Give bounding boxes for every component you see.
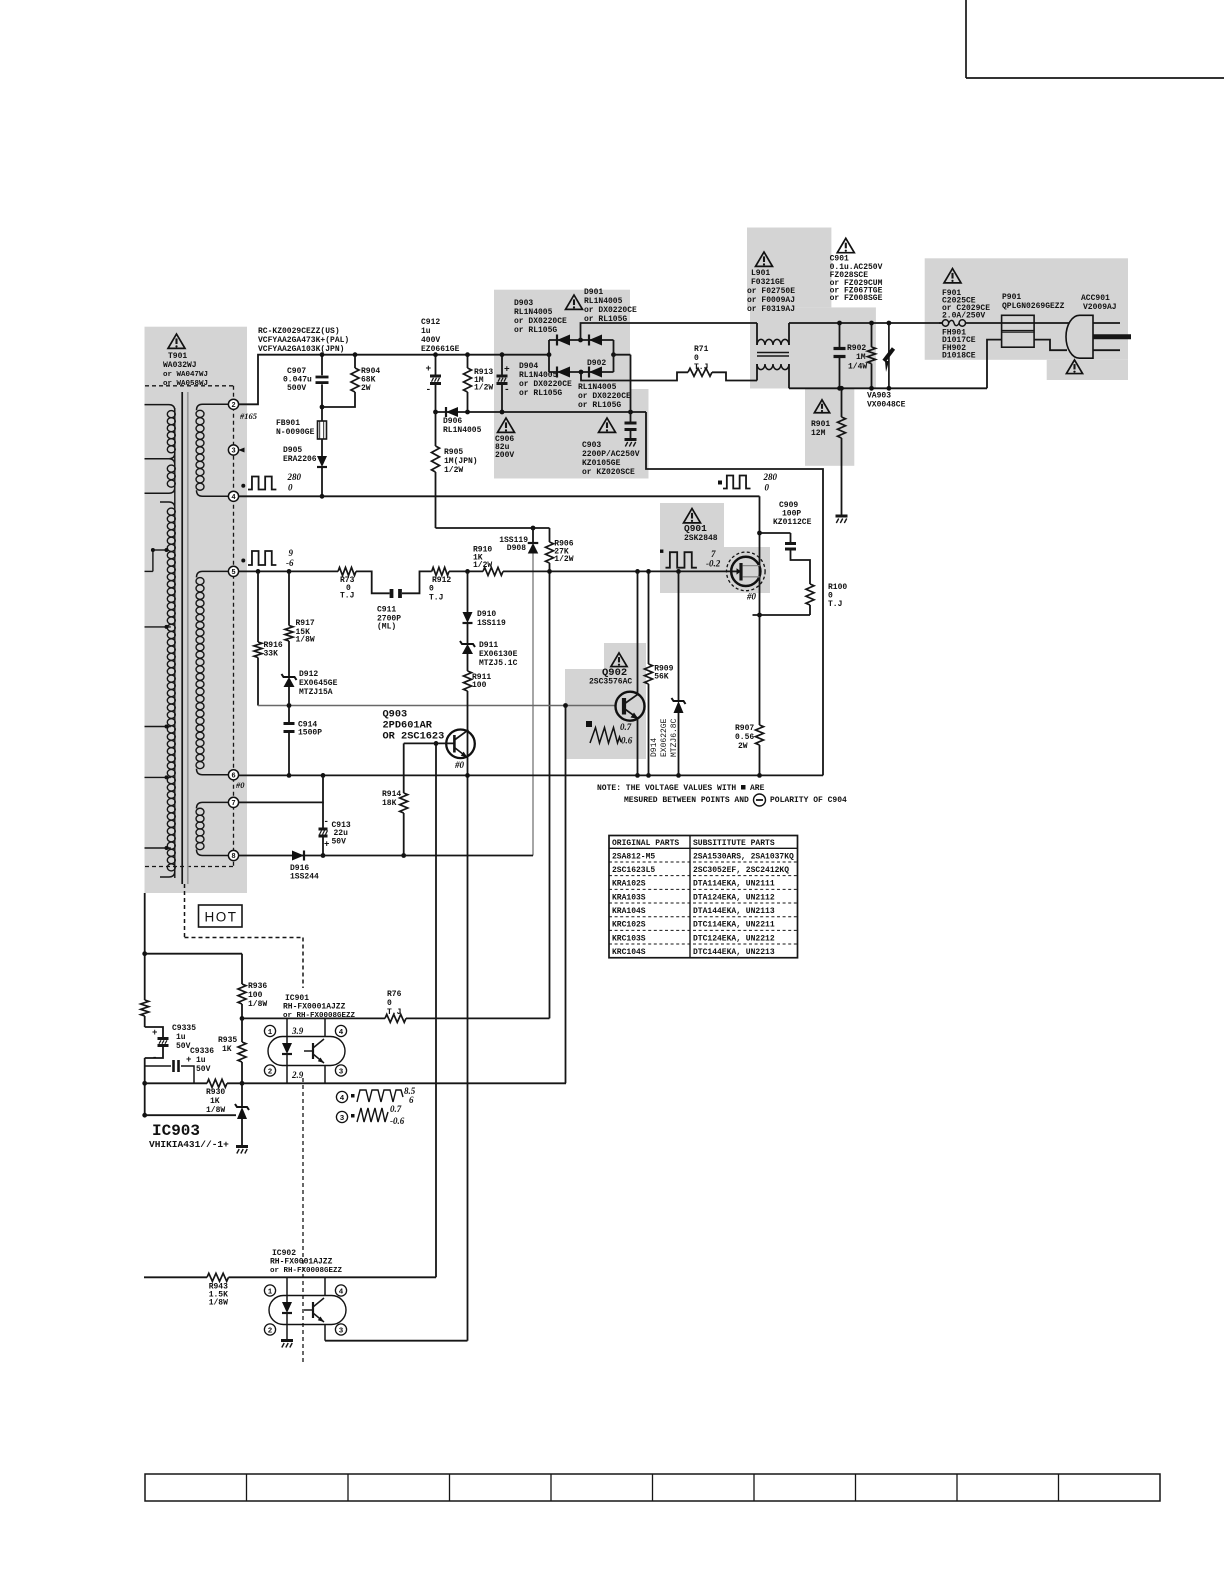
svg-text:-: -: [324, 817, 329, 827]
svg-text:T901: T901: [168, 352, 187, 361]
svg-text:EX0622GE: EX0622GE: [660, 718, 669, 757]
svg-text:IC903: IC903: [152, 1122, 200, 1140]
svg-text:DTC114EKA, UN2211: DTC114EKA, UN2211: [693, 921, 775, 930]
svg-text:VHIKIA431//-1+: VHIKIA431//-1+: [149, 1139, 229, 1150]
svg-text:RL1N4005: RL1N4005: [584, 297, 623, 306]
svg-text:MTZJ6.8C: MTZJ6.8C: [670, 718, 679, 757]
svg-text:or FZ008SGE: or FZ008SGE: [830, 294, 883, 303]
svg-text:C903: C903: [582, 441, 601, 450]
svg-text:P901: P901: [1002, 293, 1021, 302]
svg-text:or DX0220CE: or DX0220CE: [584, 306, 637, 315]
svg-text:EZ0661GE: EZ0661GE: [421, 345, 460, 354]
svg-text:5: 5: [231, 569, 235, 577]
svg-text:0: 0: [288, 483, 293, 493]
svg-text:R912: R912: [432, 576, 451, 585]
svg-text:MTZJ15A: MTZJ15A: [299, 688, 333, 697]
svg-text:D901: D901: [584, 288, 603, 297]
svg-text:KZ0105GE: KZ0105GE: [582, 459, 621, 468]
svg-text:2SC3052EF, 2SC2412KQ: 2SC3052EF, 2SC2412KQ: [693, 866, 789, 875]
svg-text:12M: 12M: [811, 429, 826, 438]
svg-text:+: +: [426, 363, 432, 374]
svg-text:DTC144EKA, UN2213: DTC144EKA, UN2213: [693, 948, 775, 957]
svg-text:D914: D914: [650, 738, 659, 757]
svg-text:L901: L901: [751, 269, 770, 278]
svg-text:-6: -6: [286, 558, 294, 568]
svg-text:-: -: [426, 384, 432, 395]
svg-text:2PD601AR: 2PD601AR: [383, 720, 433, 732]
svg-text:or F0319AJ: or F0319AJ: [747, 305, 795, 314]
svg-text:KRC104S: KRC104S: [612, 948, 646, 957]
svg-text:2.0A/250V: 2.0A/250V: [942, 312, 985, 321]
svg-text:4: 4: [339, 1029, 344, 1037]
svg-text:RL1N4005: RL1N4005: [578, 383, 617, 392]
svg-text:HOT: HOT: [205, 910, 238, 925]
svg-text:0: 0: [429, 585, 434, 594]
svg-text:0: 0: [694, 354, 699, 363]
svg-text:KRA103S: KRA103S: [612, 893, 646, 902]
svg-text:2200P/AC250V: 2200P/AC250V: [582, 450, 640, 459]
svg-text:N-0090GE: N-0090GE: [276, 428, 315, 437]
svg-text:3: 3: [340, 1115, 345, 1123]
svg-text:VA903: VA903: [867, 392, 891, 401]
svg-text:33K: 33K: [264, 650, 279, 659]
svg-text:-0.2: -0.2: [706, 559, 721, 569]
svg-text:3.9: 3.9: [291, 1026, 304, 1036]
svg-text:C9335: C9335: [172, 1024, 196, 1033]
svg-text:2.9: 2.9: [291, 1070, 304, 1080]
svg-text:or RL105G: or RL105G: [514, 326, 557, 335]
svg-text:0.7: 0.7: [390, 1104, 402, 1114]
svg-text:T.J: T.J: [694, 363, 708, 372]
svg-text:2: 2: [268, 1068, 273, 1076]
svg-text:ERA2206: ERA2206: [283, 455, 317, 464]
svg-text:2SC3576AC: 2SC3576AC: [589, 678, 632, 687]
svg-text:50V: 50V: [196, 1065, 211, 1074]
svg-text:400V: 400V: [421, 336, 440, 345]
svg-text:-0.6: -0.6: [390, 1116, 405, 1126]
svg-text:D912: D912: [299, 670, 318, 679]
svg-text:KRC102S: KRC102S: [612, 921, 646, 930]
svg-text:0.6: 0.6: [621, 736, 633, 746]
svg-text:#165: #165: [239, 411, 258, 421]
svg-text:1/8W: 1/8W: [206, 1106, 225, 1115]
svg-text:QPLGN0269GEZZ: QPLGN0269GEZZ: [1002, 302, 1065, 311]
svg-text:F0321GE: F0321GE: [751, 278, 785, 287]
svg-text:0: 0: [765, 483, 770, 493]
svg-text:200V: 200V: [495, 451, 514, 460]
svg-text:1K: 1K: [222, 1045, 232, 1054]
svg-text:or RH-FX0008GEZZ: or RH-FX0008GEZZ: [270, 1267, 343, 1275]
svg-text:7: 7: [231, 800, 235, 808]
svg-text:4: 4: [340, 1095, 345, 1103]
svg-text:#0: #0: [454, 760, 465, 770]
svg-text:ORIGINAL PARTS: ORIGINAL PARTS: [612, 839, 679, 848]
svg-text:1SS244: 1SS244: [290, 873, 319, 882]
svg-text:D910: D910: [477, 610, 496, 619]
svg-text:T.J: T.J: [387, 1008, 401, 1017]
svg-text:or F02750E: or F02750E: [747, 287, 795, 296]
svg-text:1K: 1K: [210, 1097, 220, 1106]
svg-text:or DX0220CE: or DX0220CE: [578, 392, 631, 401]
svg-text:0.7: 0.7: [620, 722, 632, 732]
svg-text:100: 100: [248, 991, 263, 1000]
svg-text:DTA144EKA, UN2113: DTA144EKA, UN2113: [693, 907, 775, 916]
svg-text:4: 4: [231, 494, 236, 502]
svg-text:or WA058WJ: or WA058WJ: [163, 380, 208, 388]
svg-text:3: 3: [231, 448, 235, 456]
svg-text:50V: 50V: [332, 838, 347, 847]
svg-text:1500P: 1500P: [298, 729, 322, 738]
svg-text:R902: R902: [847, 344, 866, 353]
svg-text:1: 1: [268, 1288, 273, 1296]
svg-text:R914: R914: [382, 790, 401, 799]
svg-text:7: 7: [711, 549, 716, 559]
svg-text:R917: R917: [296, 619, 315, 628]
svg-text:R907: R907: [735, 724, 754, 733]
svg-text:(ML): (ML): [377, 623, 396, 632]
svg-text:SUBSITITUTE PARTS: SUBSITITUTE PARTS: [693, 839, 775, 848]
svg-text:RL1N4005: RL1N4005: [519, 371, 558, 380]
svg-text:ACC901: ACC901: [1081, 294, 1110, 303]
svg-text:R71: R71: [694, 345, 709, 354]
svg-text:-: -: [152, 1053, 157, 1063]
svg-text:or DX0220CE: or DX0220CE: [514, 317, 567, 326]
svg-text:2W: 2W: [361, 384, 371, 393]
svg-text:EX06130E: EX06130E: [479, 650, 518, 659]
svg-text:WA032WJ: WA032WJ: [163, 361, 197, 370]
svg-text:R905: R905: [444, 448, 463, 457]
svg-text:RC-KZ0029CEZZ(US): RC-KZ0029CEZZ(US): [258, 327, 340, 336]
svg-text:#0: #0: [235, 780, 245, 790]
svg-text:D1018CE: D1018CE: [942, 352, 976, 361]
svg-text:1M(JPN): 1M(JPN): [444, 457, 478, 466]
svg-text:EX0645GE: EX0645GE: [299, 679, 338, 688]
svg-text:1: 1: [268, 1029, 273, 1037]
svg-text:POLARITY OF C904: POLARITY OF C904: [770, 796, 847, 805]
svg-text:2SK2848: 2SK2848: [684, 534, 718, 543]
svg-text:2SA812-M5: 2SA812-M5: [612, 852, 655, 861]
svg-text:RH-FX0001AJZZ: RH-FX0001AJZZ: [283, 1003, 346, 1012]
svg-text:8: 8: [231, 853, 235, 861]
svg-text:3: 3: [339, 1327, 344, 1335]
svg-text:1/8W: 1/8W: [209, 1299, 228, 1308]
svg-text:#0: #0: [746, 592, 757, 602]
svg-text:MESURED BETWEEN POINTS AND: MESURED BETWEEN POINTS AND: [624, 796, 749, 805]
svg-text:T.J: T.J: [429, 594, 443, 603]
svg-text:or RL105G: or RL105G: [519, 389, 562, 398]
svg-text:or DX0220CE: or DX0220CE: [519, 380, 572, 389]
svg-text:4: 4: [339, 1288, 344, 1296]
svg-text:ARE: ARE: [750, 784, 765, 793]
svg-text:1/2W: 1/2W: [554, 555, 573, 564]
svg-text:or RL105G: or RL105G: [578, 401, 621, 410]
svg-text:R936: R936: [248, 982, 267, 991]
svg-text:R901: R901: [811, 420, 830, 429]
svg-text:V2009AJ: V2009AJ: [1083, 303, 1117, 312]
svg-text:+: +: [152, 1028, 157, 1038]
svg-text:1u: 1u: [421, 327, 431, 336]
svg-text:2SA1530ARS, 2SA1037KQ: 2SA1530ARS, 2SA1037KQ: [693, 852, 794, 861]
svg-text:2: 2: [231, 402, 235, 410]
svg-text:+: +: [186, 1055, 191, 1065]
svg-text:KRA104S: KRA104S: [612, 907, 646, 916]
svg-text:2SC1623L5: 2SC1623L5: [612, 866, 655, 875]
svg-text:+: +: [504, 364, 510, 375]
svg-text:1/8W: 1/8W: [296, 636, 315, 645]
svg-text:KZ0112CE: KZ0112CE: [773, 518, 812, 527]
svg-text:+: +: [324, 840, 329, 850]
svg-text:RL1N4005: RL1N4005: [514, 308, 553, 317]
svg-text:DTA114EKA, UN2111: DTA114EKA, UN2111: [693, 880, 775, 889]
svg-text:or KZ020SCE: or KZ020SCE: [582, 468, 635, 477]
svg-text:1/2W: 1/2W: [474, 384, 493, 393]
svg-text:1/2W: 1/2W: [444, 466, 463, 475]
svg-text:RH-FX0001AJZZ: RH-FX0001AJZZ: [270, 1258, 333, 1267]
svg-text:1M: 1M: [856, 353, 866, 362]
svg-text:KRC103S: KRC103S: [612, 934, 646, 943]
svg-text:-: -: [504, 384, 510, 395]
svg-text:500V: 500V: [287, 384, 306, 393]
svg-text:D905: D905: [283, 446, 302, 455]
svg-text:D908: D908: [507, 544, 526, 553]
svg-text:6: 6: [231, 773, 235, 781]
svg-text:DTC124EKA, UN2212: DTC124EKA, UN2212: [693, 934, 775, 943]
svg-text:or WA047WJ: or WA047WJ: [163, 371, 208, 379]
svg-text:0: 0: [387, 999, 392, 1008]
svg-text:2W: 2W: [738, 742, 748, 751]
svg-text:D911: D911: [479, 641, 498, 650]
svg-text:or RL105G: or RL105G: [584, 315, 627, 324]
svg-text:DTA124EKA, UN2112: DTA124EKA, UN2112: [693, 893, 775, 902]
svg-text:Q901: Q901: [684, 523, 707, 534]
svg-text:C9336: C9336: [190, 1047, 214, 1056]
svg-text:2: 2: [268, 1327, 273, 1335]
svg-text:50V: 50V: [176, 1042, 191, 1051]
svg-text:C911: C911: [377, 606, 396, 615]
svg-text:6: 6: [409, 1095, 414, 1105]
svg-text:D906: D906: [443, 417, 462, 426]
svg-text:MTZJ5.1C: MTZJ5.1C: [479, 659, 518, 668]
svg-text:VCFYAA2GA473K+(PAL): VCFYAA2GA473K+(PAL): [258, 336, 349, 345]
svg-text:56K: 56K: [654, 673, 669, 682]
svg-text:9: 9: [289, 548, 294, 558]
svg-text:280: 280: [763, 472, 778, 482]
svg-text:NOTE: THE VOLTAGE VALUES WITH: NOTE: THE VOLTAGE VALUES WITH: [597, 784, 736, 793]
svg-text:R76: R76: [387, 990, 402, 999]
svg-text:D904: D904: [519, 362, 538, 371]
svg-text:1SS119: 1SS119: [477, 619, 506, 628]
svg-text:1/4W: 1/4W: [848, 363, 867, 372]
svg-text:18K: 18K: [382, 799, 397, 808]
svg-text:T.J: T.J: [828, 600, 842, 609]
svg-text:or F0009AJ: or F0009AJ: [747, 296, 795, 305]
svg-text:R930: R930: [206, 1088, 225, 1097]
svg-text:RL1N4005: RL1N4005: [443, 426, 482, 435]
svg-text:R935: R935: [218, 1036, 237, 1045]
svg-text:FB901: FB901: [276, 419, 300, 428]
svg-text:D902: D902: [587, 359, 606, 368]
svg-text:C912: C912: [421, 318, 440, 327]
svg-text:KRA102S: KRA102S: [612, 880, 646, 889]
svg-text:VX0048CE: VX0048CE: [867, 401, 906, 410]
svg-text:OR 2SC1623: OR 2SC1623: [383, 731, 445, 743]
svg-text:1/8W: 1/8W: [248, 1000, 267, 1009]
svg-text:1/2W: 1/2W: [473, 561, 492, 570]
svg-text:0.56: 0.56: [735, 733, 754, 742]
svg-text:D903: D903: [514, 299, 533, 308]
svg-text:VCFYAA2GA103K(JPN): VCFYAA2GA103K(JPN): [258, 345, 344, 354]
svg-text:T.J: T.J: [340, 592, 354, 601]
svg-text:280: 280: [287, 472, 302, 482]
svg-text:100: 100: [472, 681, 487, 690]
svg-text:1u: 1u: [176, 1033, 186, 1042]
svg-text:1u: 1u: [196, 1056, 206, 1065]
svg-text:3: 3: [339, 1068, 344, 1076]
